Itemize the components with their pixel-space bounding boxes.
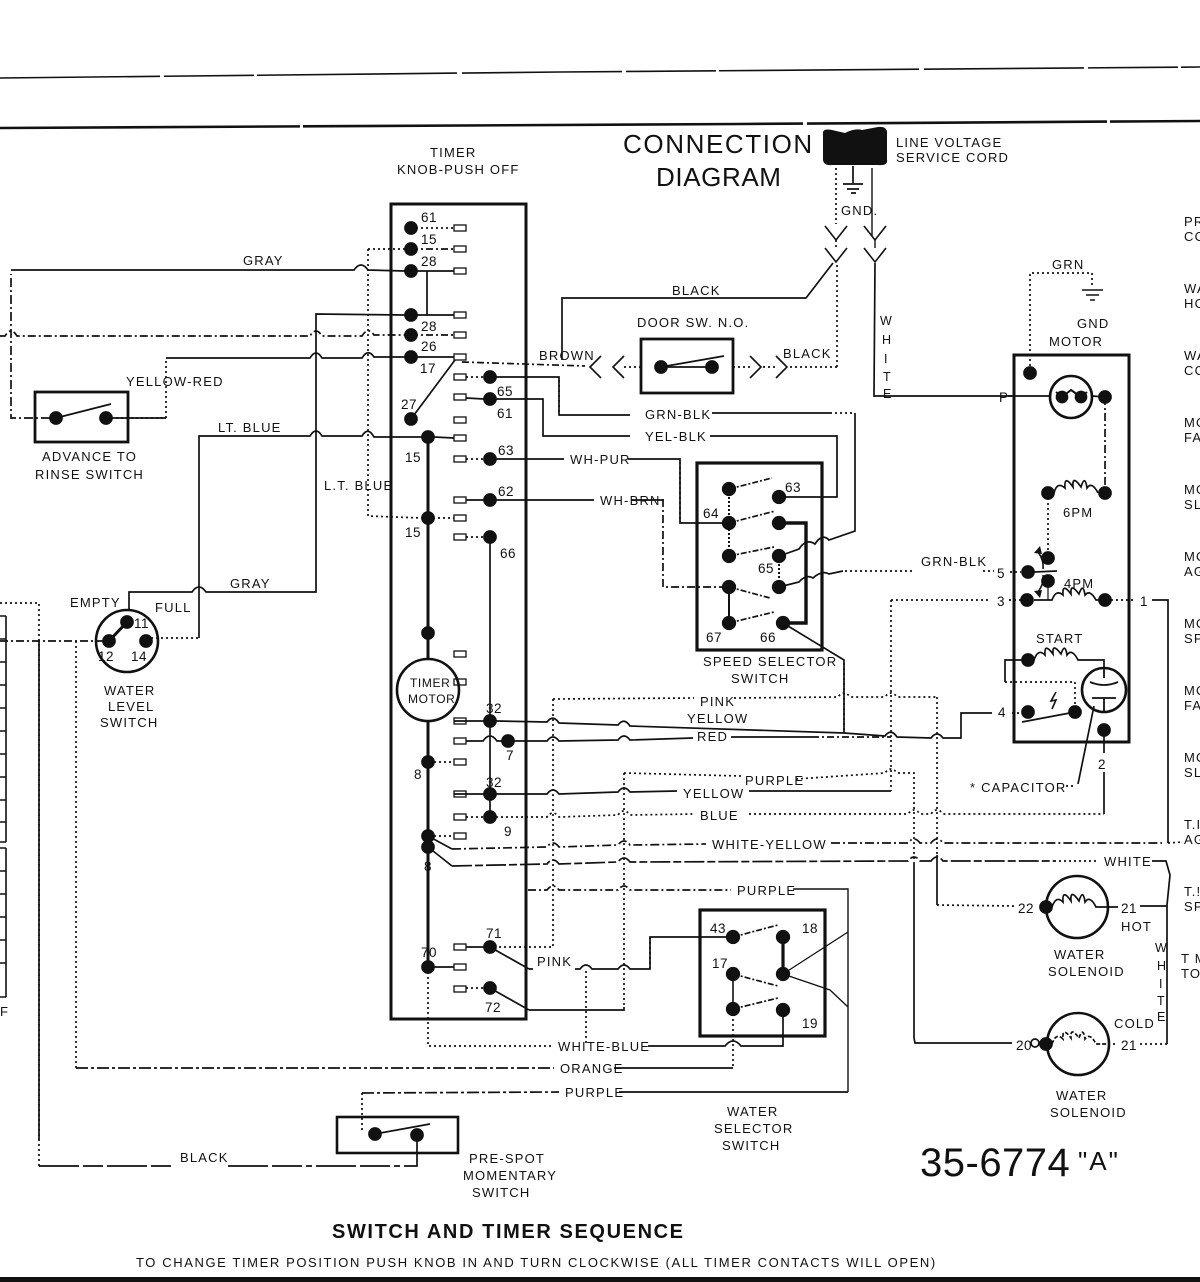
svg-text:GRN: GRN [1052, 257, 1085, 272]
svg-text:SWITCH AND TIMER SEQUENCE: SWITCH AND TIMER SEQUENCE [332, 1221, 685, 1243]
wire 17 row: from yellow-red riser to timer 17 [166, 353, 405, 358]
link between 28a and 28b contacts [426, 271, 428, 315]
speed selector inner bracket thick [779, 523, 806, 623]
svg-text:DOOR SW. N.O.: DOOR SW. N.O. [637, 315, 749, 330]
wire dash-dot from left edge to wls 12 [0, 640, 103, 642]
motor box [1014, 355, 1129, 742]
66 riser down through 32a 32b to 9 [489, 537, 491, 817]
svg-text:28: 28 [421, 254, 437, 269]
svg-text:SPEED SELECTOR: SPEED SELECTOR [703, 654, 837, 669]
riser 891 down to yellow2 [890, 600, 892, 791]
wire ORANGE riser from 12 wire down [75, 641, 77, 1068]
timer contact 26 link [411, 334, 454, 336]
svg-text:21: 21 [1121, 1038, 1137, 1053]
timer contact 27 blade to 17 terminal [411, 360, 455, 419]
right edge cut-off labels [1181, 214, 1200, 981]
15c dotted link from riser [428, 517, 454, 519]
svg-text:18: 18 [802, 921, 818, 936]
svg-text:PURPLE: PURPLE [745, 773, 804, 788]
contact 8a dotted link [434, 761, 454, 763]
svg-text:72: 72 [485, 1000, 501, 1015]
svg-text:9: 9 [504, 824, 512, 839]
svg-text:12: 12 [98, 649, 114, 664]
svg-text:WA: WA [1184, 281, 1200, 296]
svg-text:SWITCH: SWITCH [100, 715, 158, 730]
svg-text:11: 11 [134, 616, 149, 631]
svg-text:H: H [1157, 959, 1166, 973]
wire 4PM right to terminal 1 [1111, 599, 1136, 601]
contact 5 dot and blade arcs [1022, 566, 1034, 578]
svg-text:HOT: HOT [1121, 919, 1152, 934]
svg-text:YELLOW-RED: YELLOW-RED [126, 374, 224, 389]
capacitor bottom dot and riser 2 [1098, 724, 1110, 736]
svg-text:4PM: 4PM [1064, 576, 1094, 591]
svg-text:GRN-BLK: GRN-BLK [921, 554, 987, 569]
wire GRN-BLK: timer 65 to speed selector 65a [490, 377, 630, 415]
svg-text:MO: MO [1184, 549, 1200, 564]
svg-text:15: 15 [421, 232, 437, 247]
svg-text:67: 67 [706, 630, 722, 645]
wire PINK row [553, 698, 694, 699]
svg-text:BLUE: BLUE [700, 808, 739, 823]
svg-text:GRN-BLK: GRN-BLK [645, 407, 711, 422]
svg-text:28: 28 [421, 319, 437, 334]
svg-text:E: E [883, 387, 891, 401]
svg-text:62: 62 [498, 484, 514, 499]
contact 3 dot [1021, 594, 1033, 606]
wire GRAY bottom: wls 11 riser to timer 28b [129, 314, 405, 610]
svg-text:WATER: WATER [727, 1104, 779, 1119]
scan artifact line 2 [0, 121, 1200, 128]
svg-text:5: 5 [997, 566, 1005, 581]
water selector switch box [700, 910, 825, 1036]
wire PURPLE3 row [362, 1092, 559, 1093]
svg-text:WH-PUR: WH-PUR [570, 452, 631, 467]
pre-spot contacts and blade [369, 1128, 423, 1141]
svg-text:PURPLE: PURPLE [565, 1085, 624, 1100]
blade 4 [1022, 712, 1075, 722]
svg-text:71: 71 [486, 926, 502, 941]
label SPEED SELECTOR SWITCH [703, 654, 837, 686]
contact 65 dotted link [466, 376, 484, 378]
timer motor circle [397, 659, 459, 721]
svg-text:15: 15 [405, 525, 421, 540]
svg-text:I: I [1159, 977, 1162, 991]
svg-text:FULL: FULL [155, 600, 192, 615]
contact 7 dot, link with hop over riser [502, 735, 514, 747]
svg-text:YELLOW: YELLOW [683, 786, 744, 801]
6PM winding [1042, 487, 1111, 499]
svg-text:MO: MO [1184, 750, 1200, 765]
svg-text:GRAY: GRAY [230, 576, 271, 591]
svg-text:WATER: WATER [104, 683, 156, 698]
svg-text:TIMER: TIMER [410, 676, 450, 690]
wire BROWN dashed from timer 17 terminal to door switch [462, 362, 585, 366]
svg-text:FA: FA [1184, 698, 1200, 713]
svg-text:32: 32 [486, 775, 502, 790]
svg-text:KNOB-PUSH OFF: KNOB-PUSH OFF [397, 162, 520, 177]
svg-text:66: 66 [500, 546, 516, 561]
svg-text:BROWN: BROWN [539, 348, 595, 363]
motor top ground dot [1024, 367, 1036, 379]
svg-text:MO: MO [1184, 683, 1200, 698]
pre-spot momentary switch box [337, 1117, 458, 1153]
svg-text:SOLENOID: SOLENOID [1050, 1105, 1127, 1120]
svg-text:WHITE-YELLOW: WHITE-YELLOW [712, 837, 827, 852]
contact 66 dotted link [466, 536, 484, 538]
svg-text:W: W [1155, 941, 1167, 955]
svg-text:1: 1 [1140, 594, 1148, 609]
svg-text:AG: AG [1184, 564, 1200, 579]
speed selector left dots [723, 483, 736, 630]
left edge connector block 2 [0, 848, 6, 997]
svg-text:PINK: PINK [537, 954, 572, 969]
water selector dots [727, 931, 790, 1017]
svg-text:63: 63 [498, 443, 514, 458]
svg-text:WHITE-BLUE: WHITE-BLUE [558, 1039, 650, 1054]
svg-text:17: 17 [420, 361, 436, 376]
wire GRN-BLK 2: speed selector 65b to motor 5 [779, 571, 843, 587]
svg-text:61: 61 [497, 406, 513, 421]
svg-text:17: 17 [712, 956, 728, 971]
speed selector switch box [697, 463, 822, 650]
wls contacts [103, 616, 152, 647]
svg-text:6PM: 6PM [1063, 505, 1093, 520]
svg-text:SP: SP [1184, 899, 1200, 914]
wire dash-dot row to timer 26 [0, 331, 405, 336]
svg-text:32: 32 [486, 701, 502, 716]
wire GRAY top: rinse switch to timer 28a [11, 274, 50, 418]
svg-text:65: 65 [497, 384, 513, 399]
svg-text:MO: MO [1184, 482, 1200, 497]
svg-text:61: 61 [421, 210, 437, 225]
speed selector blades [729, 478, 772, 489]
svg-text:8: 8 [414, 767, 422, 782]
svg-text:LINE VOLTAGE: LINE VOLTAGE [896, 135, 1002, 150]
wire BLACK bottom row [39, 1165, 174, 1167]
svg-text:63: 63 [785, 480, 801, 495]
svg-text:SOLENOID: SOLENOID [1048, 964, 1125, 979]
svg-text:RINSE SWITCH: RINSE SWITCH [35, 467, 144, 482]
scan artifact line top [0, 67, 1200, 78]
wls blade 12-11 [109, 622, 127, 641]
wls labels [98, 616, 149, 664]
timer box [391, 204, 526, 1019]
svg-text:2: 2 [1098, 757, 1106, 772]
wire 1 riser down to white-yellow row [1152, 600, 1168, 843]
wire dash-dot riser protector to 6PM right [1104, 397, 1106, 493]
service cord lead wires (dotted drops) [835, 168, 837, 248]
svg-text:T: T [1157, 994, 1165, 1008]
svg-text:HO: HO [1184, 296, 1200, 311]
svg-text:E: E [1157, 1010, 1165, 1024]
svg-text:F: F [0, 1004, 9, 1019]
wire YELLOW-RED riser [106, 358, 166, 418]
label LINE VOLTAGE SERVICE CORD [896, 135, 1009, 165]
svg-text:26: 26 [421, 339, 437, 354]
svg-text:PRE-SPOT: PRE-SPOT [469, 1151, 545, 1166]
lower contact labels [414, 701, 514, 1015]
timer contact 28a link [411, 270, 454, 272]
wire YEL-BLK: timer 61 to speed selector 63b [490, 399, 630, 436]
flash mark [1051, 692, 1056, 709]
svg-text:19: 19 [802, 1016, 818, 1031]
label PRE-SPOT MOMENTARY SWITCH [463, 1151, 557, 1200]
timer terminals (small rects) [454, 225, 466, 992]
svg-text:T: T [883, 370, 891, 384]
wire ORANGE row: 12 riser to wsel 17b [76, 1067, 554, 1069]
label WHITE vertical [880, 314, 892, 401]
svg-text:MOMENTARY: MOMENTARY [463, 1168, 557, 1183]
svg-text:MOTOR: MOTOR [408, 692, 455, 706]
label 35-6774 "A" [920, 1141, 1120, 1185]
contact 8b dotted link [434, 835, 454, 837]
connector chevrons (left lead) [825, 226, 847, 240]
wire dotted 43 row left [649, 937, 651, 968]
label WHITE vertical right [1155, 941, 1167, 1024]
svg-text:COLD: COLD [1114, 1016, 1155, 1031]
contact 9 dot and dotted link [484, 811, 496, 823]
svg-text:MOTOR: MOTOR [1049, 334, 1103, 349]
svg-text:RED: RED [697, 729, 728, 744]
connector chevrons (right lead) [864, 226, 886, 240]
riser PINK to solenoid 22 [936, 697, 938, 855]
wire purple row segments [528, 886, 731, 890]
contact 70 dot and link [422, 961, 434, 973]
wire GRN dotted from motor top dot up to gnd [1030, 273, 1092, 371]
timer contact 61 top: dotted link to terminal [411, 227, 454, 229]
svg-text:BLACK: BLACK [672, 283, 721, 298]
svg-text:L.T. BLUE: L.T. BLUE [324, 478, 393, 493]
svg-text:DIAGRAM: DIAGRAM [656, 162, 782, 192]
wire PURPLE row [624, 773, 741, 776]
speed selector labels [703, 480, 801, 645]
label WATER SOLENOID cold [1050, 1088, 1127, 1120]
svg-text:GND: GND [1077, 316, 1110, 331]
wire RED row: 7 to motor 3 [514, 736, 693, 741]
wire WH-BRN: timer 62 to speed selector 67a [490, 499, 594, 501]
svg-text:* CAPACITOR: * CAPACITOR [970, 780, 1067, 795]
wire dotted from door switch right to service lead [836, 265, 838, 367]
timer contact labels upper [401, 210, 437, 540]
svg-text:20: 20 [1016, 1038, 1032, 1053]
rinse switch contacts and blade [50, 412, 112, 424]
contact 71 dot and links [484, 941, 496, 953]
svg-text:LT. BLUE: LT. BLUE [218, 420, 282, 435]
contact 62 link [466, 499, 484, 501]
wire LT. BLUE 2: timer 15a to 15c [368, 249, 422, 518]
svg-text:SELECTOR: SELECTOR [714, 1121, 793, 1136]
svg-text:SL: SL [1184, 497, 1200, 512]
timer right column dots 65/61/63/62/66 [484, 371, 496, 543]
label WATER SOLENOID hot [1048, 947, 1125, 979]
svg-text:CONNECTION: CONNECTION [623, 129, 814, 159]
4PM winding [1047, 581, 1049, 600]
svg-text:LEVEL: LEVEL [108, 699, 154, 714]
speed selector dotted link right 65 pair [778, 556, 780, 587]
svg-text:AG: AG [1184, 832, 1200, 847]
svg-text:SWITCH: SWITCH [722, 1138, 780, 1153]
water level switch circle [96, 610, 158, 672]
water selector labels [710, 921, 818, 1031]
4PM left dot [1042, 575, 1054, 587]
svg-text:43: 43 [710, 921, 726, 936]
svg-text:WATER: WATER [1054, 947, 1106, 962]
svg-text:SL: SL [1184, 765, 1200, 780]
wire YELLOW row: 32a to motor 4 [496, 713, 992, 738]
riser white right down to cold 21 [1166, 905, 1168, 1044]
advance to rinse switch box [35, 392, 128, 442]
svg-text:TIMER: TIMER [430, 145, 476, 160]
svg-text:SP: SP [1184, 631, 1200, 646]
title CONNECTION DIAGRAM [623, 129, 814, 192]
wire WHITE-BLUE row: 70 riser to 19 [428, 967, 552, 1046]
capacitor plates [1090, 668, 1118, 712]
water selector blades [733, 925, 778, 937]
wire 66 to yellow row riser [783, 623, 844, 733]
ground symbol motor [1082, 290, 1103, 300]
svg-text:MO: MO [1184, 415, 1200, 430]
svg-text:65: 65 [758, 561, 774, 576]
wire LT. BLUE: wls 14 up to timer 15b [146, 637, 199, 639]
label ADVANCE TO RINSE SWITCH [35, 449, 144, 482]
svg-text:WA: WA [1184, 348, 1200, 363]
svg-text:14: 14 [131, 649, 147, 664]
svg-text:FA: FA [1184, 430, 1200, 445]
speed selector dotted links left column [728, 489, 730, 556]
svg-text:W: W [880, 314, 892, 328]
bottom scan bar [0, 1277, 1200, 1282]
timer thick center riser with dots [427, 437, 430, 967]
timer contact 28b link [411, 314, 454, 316]
label CAPACITOR with pointer [970, 780, 1067, 795]
contact 32b dot and link [484, 788, 496, 800]
label TIMER MOTOR [408, 676, 455, 706]
svg-text:BLACK: BLACK [783, 346, 832, 361]
svg-text:P: P [999, 390, 1009, 405]
hot water solenoid [1046, 876, 1108, 938]
svg-text:"A": "A" [1078, 1146, 1120, 1176]
wire 20 from purple riser [914, 1038, 1012, 1043]
svg-text:7: 7 [506, 748, 514, 763]
svg-text:GND.: GND. [841, 203, 878, 218]
8b diagonals to rows [428, 836, 452, 866]
label TIMER KNOB-PUSH OFF [397, 145, 520, 177]
label WATER LEVEL SWITCH [100, 683, 158, 730]
svg-text:CO: CO [1184, 229, 1200, 244]
svg-text:H: H [882, 333, 891, 347]
svg-text:8: 8 [424, 859, 432, 874]
wire WHITE vertical from right lead down to motor P [874, 263, 1012, 396]
svg-text:22: 22 [1018, 901, 1034, 916]
svg-text:T.!: T.! [1184, 884, 1200, 899]
svg-text:YELLOW: YELLOW [687, 711, 748, 726]
svg-text:YEL-BLK: YEL-BLK [645, 429, 707, 444]
svg-text:70: 70 [421, 945, 437, 960]
speed selector right dots [773, 491, 790, 630]
svg-text:15: 15 [405, 450, 421, 465]
svg-text:GRAY: GRAY [243, 253, 284, 268]
svg-text:PINK: PINK [700, 694, 735, 709]
start circuit U link [1005, 660, 1028, 682]
wire PINK2 row 71 blade to 43 [529, 937, 726, 969]
blade 72 [490, 988, 529, 1010]
wire P to protector [1008, 395, 1050, 397]
svg-text:T M: T M [1181, 951, 1200, 966]
timer left column contact dots [405, 222, 417, 425]
water selector thick link right pair [781, 937, 784, 974]
right column labels [497, 384, 516, 561]
svg-text:SWITCH: SWITCH [472, 1185, 530, 1200]
riser PURPLE to 72 row [623, 773, 625, 1007]
contact 4 dot, right blade dot [1022, 706, 1081, 718]
wire YELLOW2 row: 32b to red riser [496, 788, 677, 794]
svg-text:66: 66 [760, 630, 776, 645]
riser PINK to 71 [490, 699, 553, 947]
riser purple3 to prespot left dot [361, 1093, 363, 1131]
wire protector to right dot [1092, 396, 1105, 397]
wire 6PM left dotted riser down [1047, 493, 1049, 558]
wire BLACK (service cord to corner) [562, 263, 833, 360]
door switch box [641, 339, 733, 393]
svg-text:PURPLE: PURPLE [737, 883, 796, 898]
svg-text:ADVANCE TO: ADVANCE TO [42, 449, 137, 464]
thermal protector circle [1050, 376, 1092, 418]
wire BLUE row: 9 to capacitor 2 [496, 811, 694, 817]
door switch contacts and blade [655, 361, 718, 373]
wire WH-PUR: timer 63 to speed selector 64 [490, 458, 564, 460]
svg-text:WATER: WATER [1056, 1088, 1108, 1103]
contact 32a dot and link [484, 715, 496, 727]
svg-text:START: START [1036, 631, 1083, 646]
15b terminal link [434, 437, 454, 438]
svg-text:SWITCH: SWITCH [731, 671, 789, 686]
cold water solenoid [1047, 1013, 1109, 1075]
svg-text:CO: CO [1184, 363, 1200, 378]
line voltage service cord (black block) [823, 127, 887, 165]
svg-text:35-6774: 35-6774 [920, 1141, 1070, 1185]
start winding [1022, 654, 1034, 666]
wire WHITE row [452, 857, 1054, 866]
riser wsel 17b dotted [732, 1009, 734, 1068]
timer contact 17 link [411, 356, 454, 358]
svg-text:3: 3 [997, 594, 1005, 609]
ground symbol under service cord [843, 166, 863, 193]
svg-text:4: 4 [998, 705, 1006, 720]
svg-text:64: 64 [703, 506, 719, 521]
svg-text:27: 27 [401, 397, 417, 412]
contact 61 link [466, 398, 484, 399]
svg-text:MO: MO [1184, 616, 1200, 631]
left arrows door switch [590, 356, 601, 378]
capacitor circle [1082, 668, 1126, 712]
label WATER SELECTOR SWITCH [714, 1104, 793, 1153]
svg-text:WHITE: WHITE [1104, 854, 1152, 869]
contact 72 dot and link [484, 982, 496, 994]
water selector link left pair [732, 974, 734, 1009]
protector contacts zigzag [1056, 390, 1087, 397]
svg-text:PR: PR [1184, 214, 1200, 229]
contact 63 dotted link [466, 458, 484, 460]
timer contact 15 top link [411, 248, 454, 250]
blade 71 [490, 947, 529, 969]
riser 586 to white-blue [585, 971, 587, 1046]
svg-text:TO CHANGE TIMER POSITION PUSH: TO CHANGE TIMER POSITION PUSH KNOB IN AN… [136, 1255, 937, 1270]
svg-text:BLACK: BLACK [180, 1150, 229, 1165]
left edge connector block 1 [0, 616, 6, 842]
svg-text:TO: TO [1181, 966, 1200, 981]
svg-text:SERVICE CORD: SERVICE CORD [896, 150, 1009, 165]
